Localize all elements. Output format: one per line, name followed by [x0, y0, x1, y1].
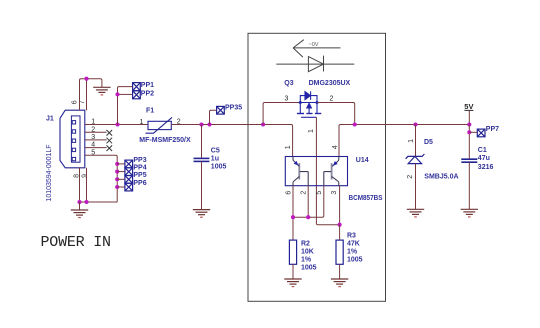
svg-text:3216: 3216	[478, 164, 494, 171]
wire J1 pin 9 vertical	[86, 168, 88, 202]
ground (C1)	[461, 209, 478, 217]
svg-text:1005: 1005	[301, 264, 317, 271]
ground (R3)	[331, 279, 348, 287]
svg-text:10103594-0001LF: 10103594-0001LF	[46, 145, 53, 202]
resistor R3	[336, 225, 343, 279]
svg-text:D5: D5	[424, 139, 433, 146]
wire J1 pin5 to testpoint bus	[85, 155, 117, 202]
wire J1 pins 6,7 to top ground	[80, 79, 102, 111]
svg-text:3: 3	[285, 96, 289, 103]
testpoint bus junctions PP3-PP6	[115, 162, 119, 166]
testpoint PP4	[125, 168, 133, 176]
ground (J1 bottom)	[71, 202, 88, 218]
junction base net at R2	[291, 215, 295, 219]
junction C5 tap	[199, 122, 203, 126]
dual PNP U14 BCM857BS	[285, 157, 347, 186]
svg-text:10K: 10K	[301, 248, 314, 255]
testpoint PP3	[125, 160, 133, 168]
Q3 gate wire down through U14	[316, 117, 339, 224]
wire D5 bottom to ground	[415, 164, 417, 210]
ground (R2)	[284, 279, 301, 287]
fuse F1	[146, 117, 173, 133]
body diode annotation	[276, 56, 354, 72]
wire PP2 stub	[118, 93, 133, 95]
no-connect X on pin 3	[107, 138, 113, 144]
wire J1 pin 7 vertical	[86, 79, 88, 111]
junction PP35 tap	[207, 122, 211, 126]
svg-text:POWER IN: POWER IN	[41, 234, 112, 251]
wire U14 pin3 down to gate net	[339, 186, 341, 225]
svg-text:1005: 1005	[347, 257, 363, 264]
svg-text:2: 2	[330, 96, 334, 103]
wire J1 pin3 stub	[85, 139, 107, 141]
junction PP2	[115, 92, 119, 96]
wire PP6 stub	[117, 186, 125, 188]
svg-text:PP2: PP2	[141, 90, 154, 97]
wire bottom ground rail	[80, 201, 118, 203]
svg-text:PP3: PP3	[133, 157, 146, 164]
svg-text:Q3: Q3	[284, 80, 293, 87]
svg-text:2: 2	[407, 175, 414, 179]
svg-text:BCM857BS: BCM857BS	[349, 195, 383, 202]
current direction arrow annotation	[293, 40, 340, 57]
testpoint PP2	[133, 91, 141, 99]
svg-text:6: 6	[72, 100, 79, 104]
svg-text:3: 3	[331, 191, 338, 195]
svg-text:1u: 1u	[211, 156, 219, 163]
svg-text:1: 1	[140, 119, 144, 126]
svg-text:F1: F1	[146, 108, 154, 115]
wire rail inside box down to U14 pin1	[248, 125, 293, 157]
testpoint PP6	[125, 183, 133, 191]
wire J1 pin4 stub	[85, 147, 107, 149]
junction D5 tap	[413, 122, 417, 126]
capacitor C1	[461, 159, 477, 162]
wire U14 pin2 down	[307, 186, 309, 218]
svg-text:SMBJ5.0A: SMBJ5.0A	[424, 174, 458, 181]
no-connect X on pin 2	[107, 130, 113, 136]
wire J1 pin2 stub	[85, 131, 107, 133]
wire U14 pin6 down to R2	[292, 186, 294, 240]
ground (top, J1 shield)	[93, 87, 110, 95]
junction Q3 drain tap	[353, 122, 357, 126]
svg-text:1: 1	[285, 145, 292, 149]
junction pin6/7	[84, 77, 88, 81]
wire D5 top	[415, 125, 417, 157]
svg-text:1005: 1005	[211, 164, 227, 171]
junction pin2 on base net	[306, 215, 310, 219]
wire U14 pin5 down	[293, 186, 324, 218]
svg-text:C5: C5	[211, 147, 220, 154]
wire C5 to ground	[201, 161, 203, 209]
ground (C5)	[193, 210, 210, 218]
svg-text:1: 1	[408, 139, 415, 143]
svg-text:DMG2305UX: DMG2305UX	[309, 80, 351, 87]
capacitor C5	[201, 125, 203, 159]
testpoint PP1	[133, 83, 141, 91]
wire PP5 stub	[117, 178, 125, 180]
testpoint PP5	[125, 176, 133, 184]
svg-text:PP4: PP4	[133, 165, 146, 172]
svg-text:PP7: PP7	[486, 126, 499, 133]
wire PP35	[210, 110, 217, 124]
svg-text:U14: U14	[356, 157, 369, 164]
svg-text:R2: R2	[301, 240, 310, 247]
no-connect X on pin 4	[107, 145, 113, 151]
main rail: J1 pin1 to fuse F1	[85, 124, 148, 126]
junction 5V node	[467, 122, 471, 126]
wire J1 pins 8,9 to bottom ground rail	[79, 168, 81, 202]
wire Q3 pin2 to output rail	[317, 103, 355, 125]
svg-text:R3: R3	[347, 232, 356, 239]
svg-text:PP1: PP1	[141, 82, 154, 89]
testpoint PP35	[217, 106, 225, 114]
left transistor	[293, 157, 308, 186]
svg-text:47K: 47K	[347, 240, 360, 247]
svg-text:5V: 5V	[464, 102, 473, 111]
junction gate net at R3	[338, 223, 342, 227]
svg-text:MF-MSMF250/X: MF-MSMF250/X	[139, 137, 191, 144]
wire PP1/PP2 vertical	[118, 87, 133, 125]
svg-text:~0V: ~0V	[309, 42, 319, 48]
junction PP7 tap	[467, 130, 471, 134]
svg-text:J1: J1	[46, 116, 54, 123]
junction pin9	[84, 200, 88, 204]
svg-text:6: 6	[285, 191, 292, 195]
wire C1 to ground	[468, 162, 470, 209]
TVS diode D5	[406, 154, 425, 164]
mosfet Q3 DMG2305UX	[297, 91, 321, 117]
ground (D5)	[407, 209, 424, 217]
svg-text:PP35: PP35	[225, 104, 242, 111]
wire U14 pin4 riser to output rail	[339, 125, 386, 157]
svg-text:5: 5	[316, 191, 323, 195]
svg-text:PP6: PP6	[133, 180, 146, 187]
junction pin8	[77, 200, 81, 204]
wire 5V node down	[468, 125, 470, 159]
svg-text:PP5: PP5	[133, 172, 146, 179]
wire Q3 pin3 riser	[263, 103, 300, 125]
junction Q3 source tap	[261, 122, 265, 126]
right transistor	[324, 157, 339, 186]
svg-text:1: 1	[308, 129, 315, 133]
svg-text:47u: 47u	[478, 155, 490, 162]
wire PP3 stub	[117, 163, 125, 165]
wire PP7 stub	[469, 131, 477, 133]
rail: F1 to box	[171, 124, 248, 126]
svg-text:4: 4	[332, 145, 339, 149]
testpoint PP7	[477, 129, 485, 137]
svg-text:1%: 1%	[301, 256, 312, 263]
wire PP4 stub	[117, 171, 125, 173]
svg-text:9: 9	[81, 174, 88, 178]
rail: box to 5V	[386, 124, 470, 126]
svg-text:2: 2	[301, 191, 308, 195]
dashed area box (power switch block)	[248, 33, 386, 301]
connector J1 body	[60, 110, 85, 168]
resistor R2	[289, 240, 296, 279]
svg-text:C1: C1	[478, 147, 487, 154]
svg-text:1%: 1%	[347, 249, 358, 256]
junction PP1/PP2 tap on rail	[115, 122, 119, 126]
